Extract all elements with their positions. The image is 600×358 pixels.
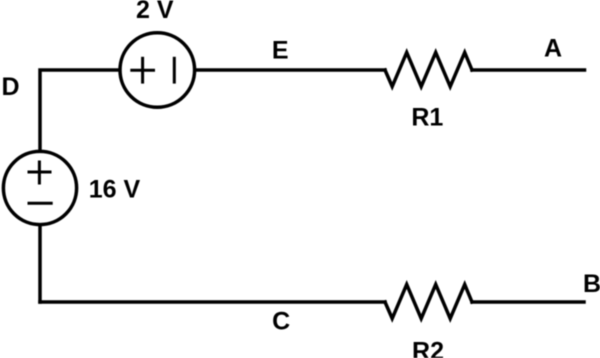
resistor R1 bbox=[385, 53, 472, 87]
wire E: top middle wire from V2 to R1 bbox=[196, 68, 385, 72]
resistor R2 bbox=[385, 285, 472, 319]
V2 minus terminal symbol bbox=[28, 202, 53, 205]
voltage source V2 16V (circle) bbox=[3, 151, 76, 224]
wire node B: R2 to terminal B bbox=[472, 300, 584, 304]
svg-text:2 V: 2 V bbox=[136, 0, 174, 24]
node label E bbox=[272, 36, 289, 64]
node label A bbox=[544, 34, 562, 62]
node label C bbox=[272, 308, 290, 336]
reference label R1 bbox=[411, 104, 443, 132]
wire D corner: node D vertical + top-left horizontal bbox=[40, 70, 119, 151]
node label D bbox=[2, 73, 20, 101]
voltage source V1 2V (circle) bbox=[120, 33, 195, 108]
wire node A: R1 to terminal A bbox=[472, 68, 585, 72]
V2 plus terminal symbol bbox=[28, 161, 52, 185]
value label 16 V bbox=[89, 176, 141, 204]
reference label R2 bbox=[412, 338, 444, 358]
svg-text:C: C bbox=[272, 308, 290, 336]
svg-text:B: B bbox=[583, 270, 600, 298]
svg-text:D: D bbox=[2, 73, 20, 101]
wire: 16V source bottom lead bbox=[38, 226, 42, 303]
svg-text:A: A bbox=[544, 34, 562, 62]
svg-text:R1: R1 bbox=[411, 104, 443, 132]
V1 plus terminal symbol bbox=[130, 57, 155, 84]
value label 2 V bbox=[136, 0, 174, 24]
wire C: bottom horizontal from source to R2 bbox=[40, 300, 385, 304]
V1 minus terminal bar bbox=[173, 57, 176, 84]
svg-text:E: E bbox=[272, 36, 289, 64]
svg-text:16 V: 16 V bbox=[89, 176, 141, 204]
svg-text:R2: R2 bbox=[412, 338, 444, 358]
node label B bbox=[583, 270, 600, 298]
